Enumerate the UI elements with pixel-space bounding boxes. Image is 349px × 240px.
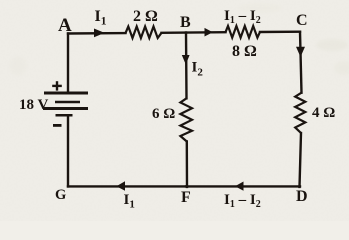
current arrow I1-I2 after B — [205, 28, 213, 37]
wire top A to 2-ohm — [68, 32, 126, 35]
svg-text:B: B — [180, 14, 191, 31]
svg-text:6 Ω: 6 Ω — [152, 106, 175, 122]
svg-text:F: F — [181, 189, 191, 206]
svg-text:4 Ω: 4 Ω — [312, 105, 335, 121]
battery minus sign — [53, 124, 62, 127]
wire battery to node G — [67, 115, 69, 186]
wire left vertical A to battery — [67, 34, 69, 93]
battery V1 plate positive long — [44, 92, 88, 95]
resistor R4 4 ohm — [295, 93, 305, 133]
svg-text:I1 – I2: I1 – I2 — [224, 192, 261, 210]
battery V1 plate negative short — [56, 114, 73, 117]
battery plus sign — [52, 81, 62, 90]
wire right node C to 4-ohm — [300, 32, 302, 93]
wire bottom G to F — [68, 185, 186, 187]
current arrow I1-I2 bottom pointing left — [235, 182, 244, 191]
wire bottom F to D — [186, 185, 300, 187]
resistor R2 8 ohm — [226, 26, 261, 38]
svg-text:D: D — [296, 188, 308, 205]
wire middle node B to 6-ohm — [185, 33, 188, 99]
resistor R1 2 ohm — [126, 27, 162, 39]
wire 2-ohm to node B — [162, 31, 187, 34]
svg-text:2 Ω: 2 Ω — [133, 8, 158, 25]
wire 6-ohm to node F — [186, 142, 189, 187]
resistor R3 6 ohm — [180, 98, 192, 141]
svg-text:I1 – I2: I1 – I2 — [224, 8, 261, 26]
svg-text:G: G — [55, 187, 66, 203]
svg-text:18 V: 18 V — [19, 97, 48, 113]
current arrow I1 top — [94, 29, 105, 38]
current arrow I1 bottom pointing left — [116, 181, 125, 191]
svg-text:8 Ω: 8 Ω — [232, 43, 257, 60]
battery V1 plate short — [55, 101, 80, 104]
current arrow down right wire — [296, 47, 305, 57]
battery V1 plate long — [43, 107, 88, 110]
current arrow I2 middle — [182, 55, 190, 65]
wire node B to 8-ohm — [186, 31, 226, 34]
wire 8-ohm to node C — [260, 31, 300, 34]
wire 4-ohm to node D — [300, 133, 302, 187]
svg-text:C: C — [296, 12, 308, 29]
svg-text:A: A — [58, 15, 72, 36]
